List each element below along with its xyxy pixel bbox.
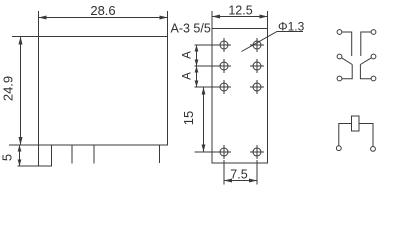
contact terminal circle top-right: [371, 30, 376, 35]
svg-text:12.5: 12.5: [228, 4, 252, 18]
contact terminal circle bottom-left: [337, 76, 342, 81]
hole r2c1: [217, 59, 231, 73]
dim 28.6 dimension line with arrows: [39, 17, 167, 19]
hole r4c1: [217, 145, 231, 159]
dim 5 dimension line with arrows: [19, 146, 21, 166]
dim A upper arrows: [196, 46, 198, 66]
dim A lower arrows: [196, 67, 198, 87]
dim 12.5 extension lines: [211, 11, 213, 29]
pin 2 (side view): [93, 145, 95, 164]
pin 1 (side view): [71, 145, 73, 164]
hole r1c2: [250, 38, 264, 52]
coil rectangle: [352, 116, 360, 131]
dim 28.6 extension lines: [38, 11, 40, 37]
wire: right bottom contact: [360, 65, 371, 79]
mounting flange (bottom-left tab): [39, 145, 52, 166]
coil terminal circle right: [371, 147, 376, 152]
dim 5 extension line (flange bottom extended): [18, 165, 39, 167]
svg-text:24.9: 24.9: [1, 76, 16, 101]
dim 7.5 dimension line with arrows: [225, 180, 257, 182]
svg-text:A: A: [182, 51, 194, 59]
dim 15 dimension line with arrows: [203, 88, 205, 152]
hole r3c2: [250, 80, 264, 94]
svg-text:7.5: 7.5: [230, 168, 247, 182]
hole r4c2: [250, 145, 264, 159]
hole row extension lines (left side): [195, 44, 218, 46]
dim 24.9 dimension line with arrows: [20, 37, 22, 145]
dim 24.9 extension lines: [12, 36, 39, 38]
contact terminal circle mid-left: [337, 54, 342, 59]
svg-text:15: 15: [181, 111, 196, 125]
wire: right movable arm: [360, 58, 371, 65]
dim 7.5 extension lines: [223, 160, 225, 185]
wire: top-right NC contact: [361, 32, 371, 56]
coil left lead wire: [339, 124, 352, 146]
hole r3c1: [217, 80, 231, 94]
dim 12.5 dimension line with arrows: [213, 16, 268, 18]
contact terminal circle top-left: [337, 30, 342, 35]
contact terminal circle mid-right: [371, 54, 376, 59]
wire: left bottom contact: [342, 65, 352, 79]
hole r2c2: [250, 59, 264, 73]
svg-text:Φ1.3: Φ1.3: [278, 20, 305, 34]
wire: left movable arm: [342, 58, 352, 65]
wire: top-left NC contact: [342, 32, 352, 56]
svg-text:A-3 5/5: A-3 5/5: [171, 22, 211, 36]
coil right lead wire: [359, 124, 373, 147]
svg-text:A: A: [182, 72, 194, 80]
leader line for hole diameter: [242, 32, 304, 52]
pin 3 (side view): [159, 145, 161, 163]
svg-text:28.6: 28.6: [90, 3, 115, 18]
hole r1c1: [217, 38, 231, 52]
footprint rectangle (bottom view): [212, 29, 268, 164]
contact terminal circle bottom-right: [371, 76, 376, 81]
coil terminal circle left: [336, 146, 341, 151]
svg-text:5: 5: [0, 154, 15, 161]
relay body outline (side view): [39, 37, 168, 146]
